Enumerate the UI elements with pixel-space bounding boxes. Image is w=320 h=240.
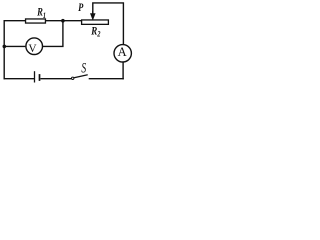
wire voltmeter branch left <box>4 45 25 47</box>
svg-text:P: P <box>78 0 84 14</box>
wire top-left: left vertical side of loop <box>3 20 5 79</box>
wire bottom from switch to right corner <box>89 78 124 80</box>
wire voltmeter branch right up to junction <box>43 21 63 47</box>
resistor R1 <box>26 19 46 23</box>
svg-text:A: A <box>118 45 127 59</box>
slider P arrow <box>91 11 95 19</box>
svg-text:S: S <box>81 60 86 76</box>
node tap dot on left wire for voltmeter branch <box>3 45 7 49</box>
node junction dot on top wire <box>61 19 65 23</box>
wire bottom from left corner to battery <box>4 78 35 80</box>
wire top horizontal from left corner to R2 <box>4 20 83 22</box>
wire right side below ammeter <box>122 62 124 79</box>
voltmeter V <box>26 38 43 55</box>
ammeter A <box>114 45 131 62</box>
battery <box>35 71 40 82</box>
wire slider riser and top run to right side <box>93 3 124 44</box>
wire bottom from battery to switch <box>41 78 72 80</box>
svg-text:V: V <box>28 43 37 55</box>
rheostat R2 <box>82 20 109 24</box>
switch S <box>72 75 88 80</box>
